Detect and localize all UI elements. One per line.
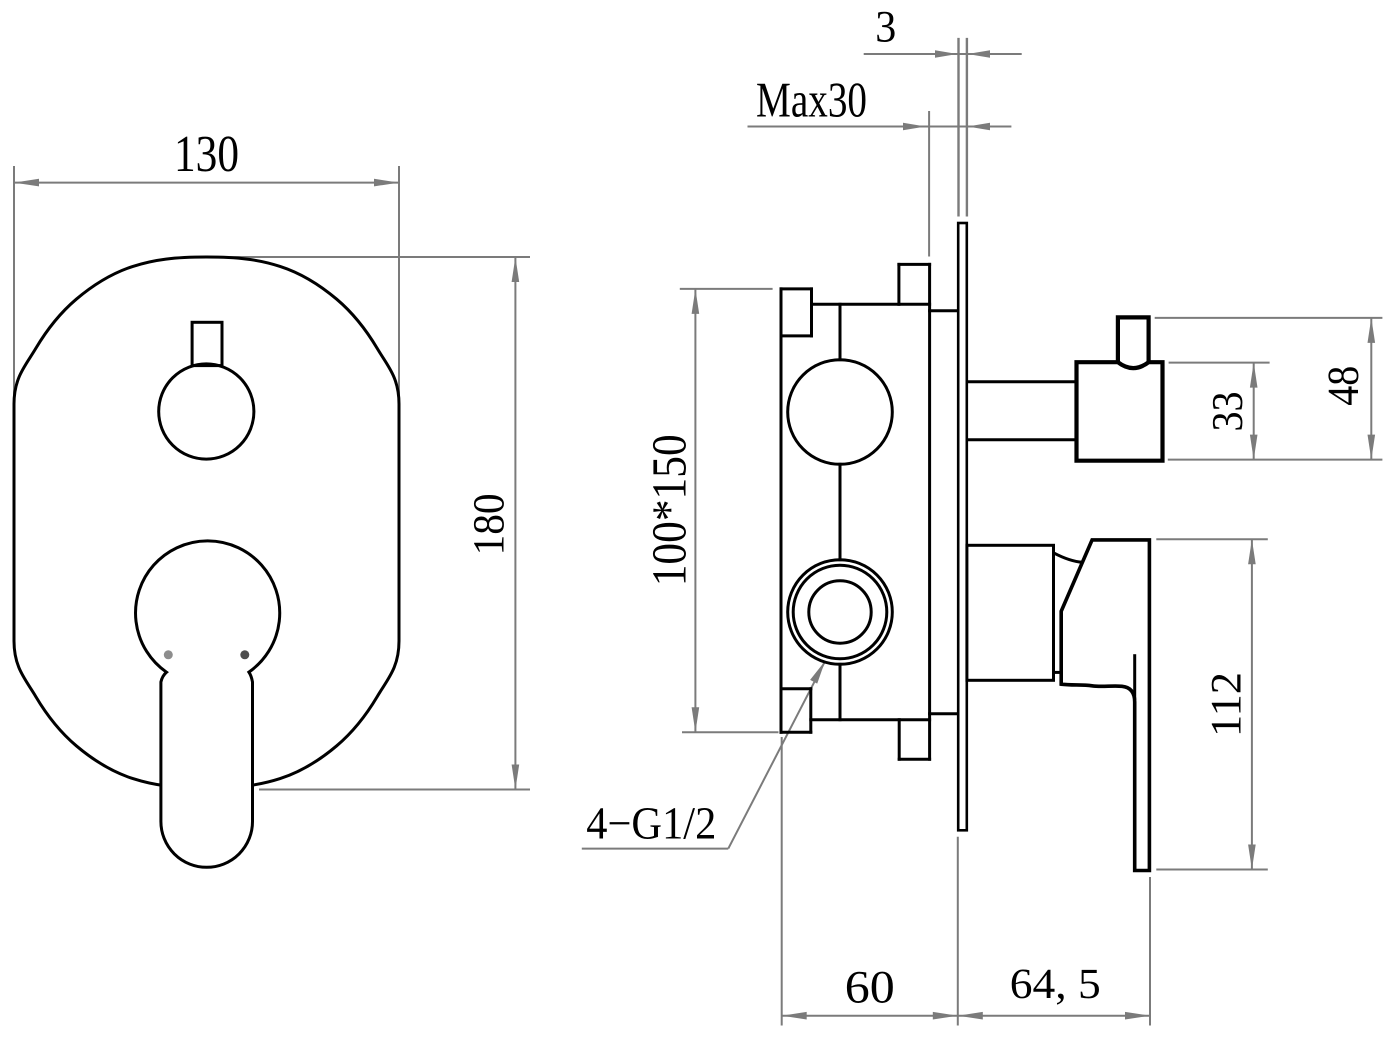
svg-text:130: 130 — [174, 126, 239, 183]
svg-text:4−G1/2: 4−G1/2 — [586, 798, 716, 849]
svg-text:100*150: 100*150 — [641, 434, 696, 586]
svg-text:48: 48 — [1318, 366, 1368, 406]
svg-text:112: 112 — [1203, 672, 1251, 737]
svg-text:33: 33 — [1203, 392, 1252, 432]
svg-text:60: 60 — [845, 963, 895, 1014]
svg-text:180: 180 — [463, 493, 513, 555]
svg-text:64, 5: 64, 5 — [1010, 961, 1101, 1008]
svg-text:3: 3 — [875, 2, 896, 52]
svg-text:Max30: Max30 — [756, 71, 867, 127]
